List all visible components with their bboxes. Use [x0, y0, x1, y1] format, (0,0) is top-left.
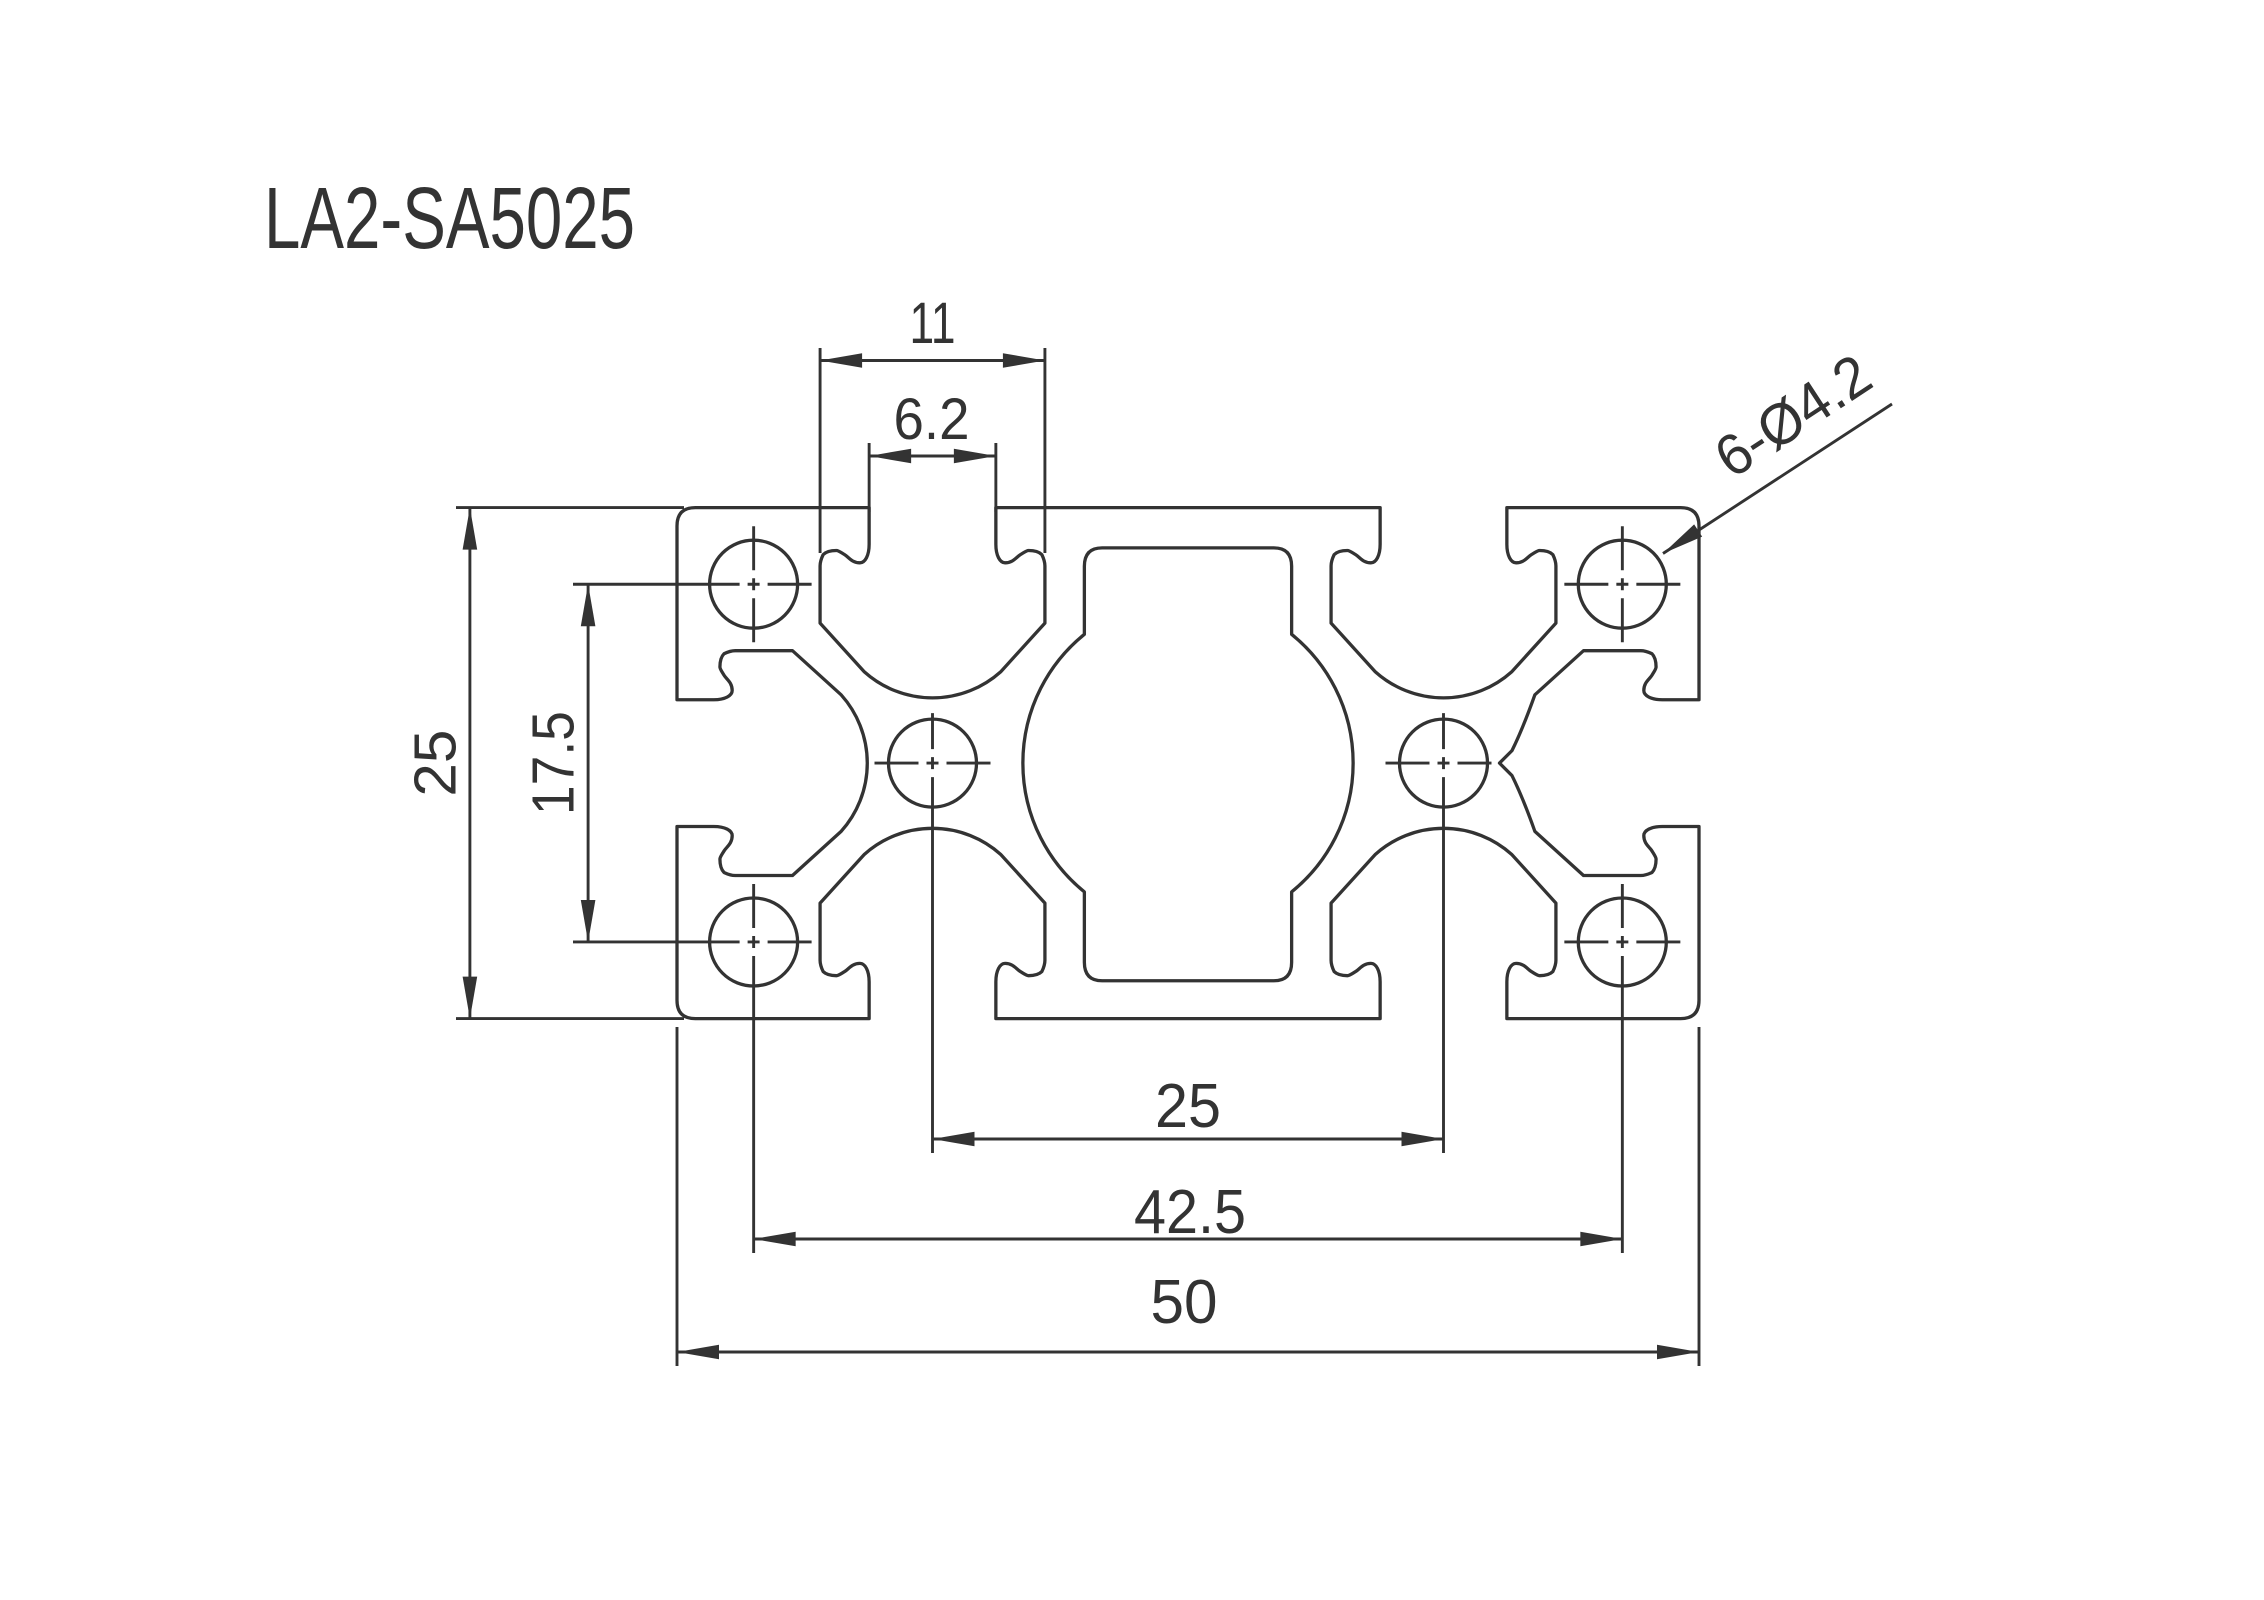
dim 50 [676, 1027, 679, 1366]
centerline top-left hole horizontal (extension of dim 17.5) [573, 583, 812, 586]
profile outer boundary with six T-slots [677, 508, 1699, 1019]
centerline top-left hole vertical [752, 526, 755, 642]
centerline bottom-right hole horizontal [1564, 941, 1680, 944]
central barrel cavity [1023, 548, 1353, 981]
centerline middle-right hole vertical (extension of dim 25) [1442, 713, 1445, 1153]
centerline bottom-left hole vertical (extension of dim 42.5) [752, 884, 755, 1253]
centerline top-right hole vertical [1621, 526, 1624, 642]
svg-text:LA2-SA5025: LA2-SA5025 [264, 170, 635, 267]
svg-text:25: 25 [1155, 1072, 1221, 1141]
dim 6.2 [868, 443, 871, 512]
svg-text:42.5: 42.5 [1134, 1178, 1246, 1247]
centerline middle-left hole horizontal [875, 762, 991, 765]
svg-text:50: 50 [1151, 1268, 1218, 1337]
svg-text:6.2: 6.2 [894, 387, 970, 452]
centerline top-right hole horizontal [1564, 583, 1680, 586]
centerline bottom-right hole vertical (extension of dim 42.5) [1621, 884, 1624, 1253]
dim 42.5 [754, 1238, 1623, 1241]
svg-text:25: 25 [403, 730, 469, 797]
hole Ø4.2 top-left [710, 540, 798, 628]
dim 11 [819, 348, 822, 553]
centerline middle-right hole horizontal [1386, 762, 1492, 765]
svg-text:17.5: 17.5 [520, 711, 586, 815]
hole Ø4.2 bottom-left [710, 898, 798, 986]
dim 25 (left, overall height) [456, 506, 684, 509]
hole Ø4.2 middle-left [889, 719, 977, 807]
centerline bottom-left hole horizontal (extension of dim 17.5) [573, 941, 812, 944]
leader and label 6-Ø4.2 [1663, 404, 1892, 554]
hole Ø4.2 middle-right [1400, 719, 1488, 807]
centerline middle-left hole vertical (extension of dim 25) [931, 713, 934, 1153]
hole Ø4.2 top-right [1578, 540, 1666, 628]
hole Ø4.2 bottom-right [1578, 898, 1666, 986]
dim 17.5 [587, 584, 590, 942]
svg-text:11: 11 [910, 291, 956, 356]
dim 25 (bottom, hole spacing) [933, 1138, 1444, 1141]
